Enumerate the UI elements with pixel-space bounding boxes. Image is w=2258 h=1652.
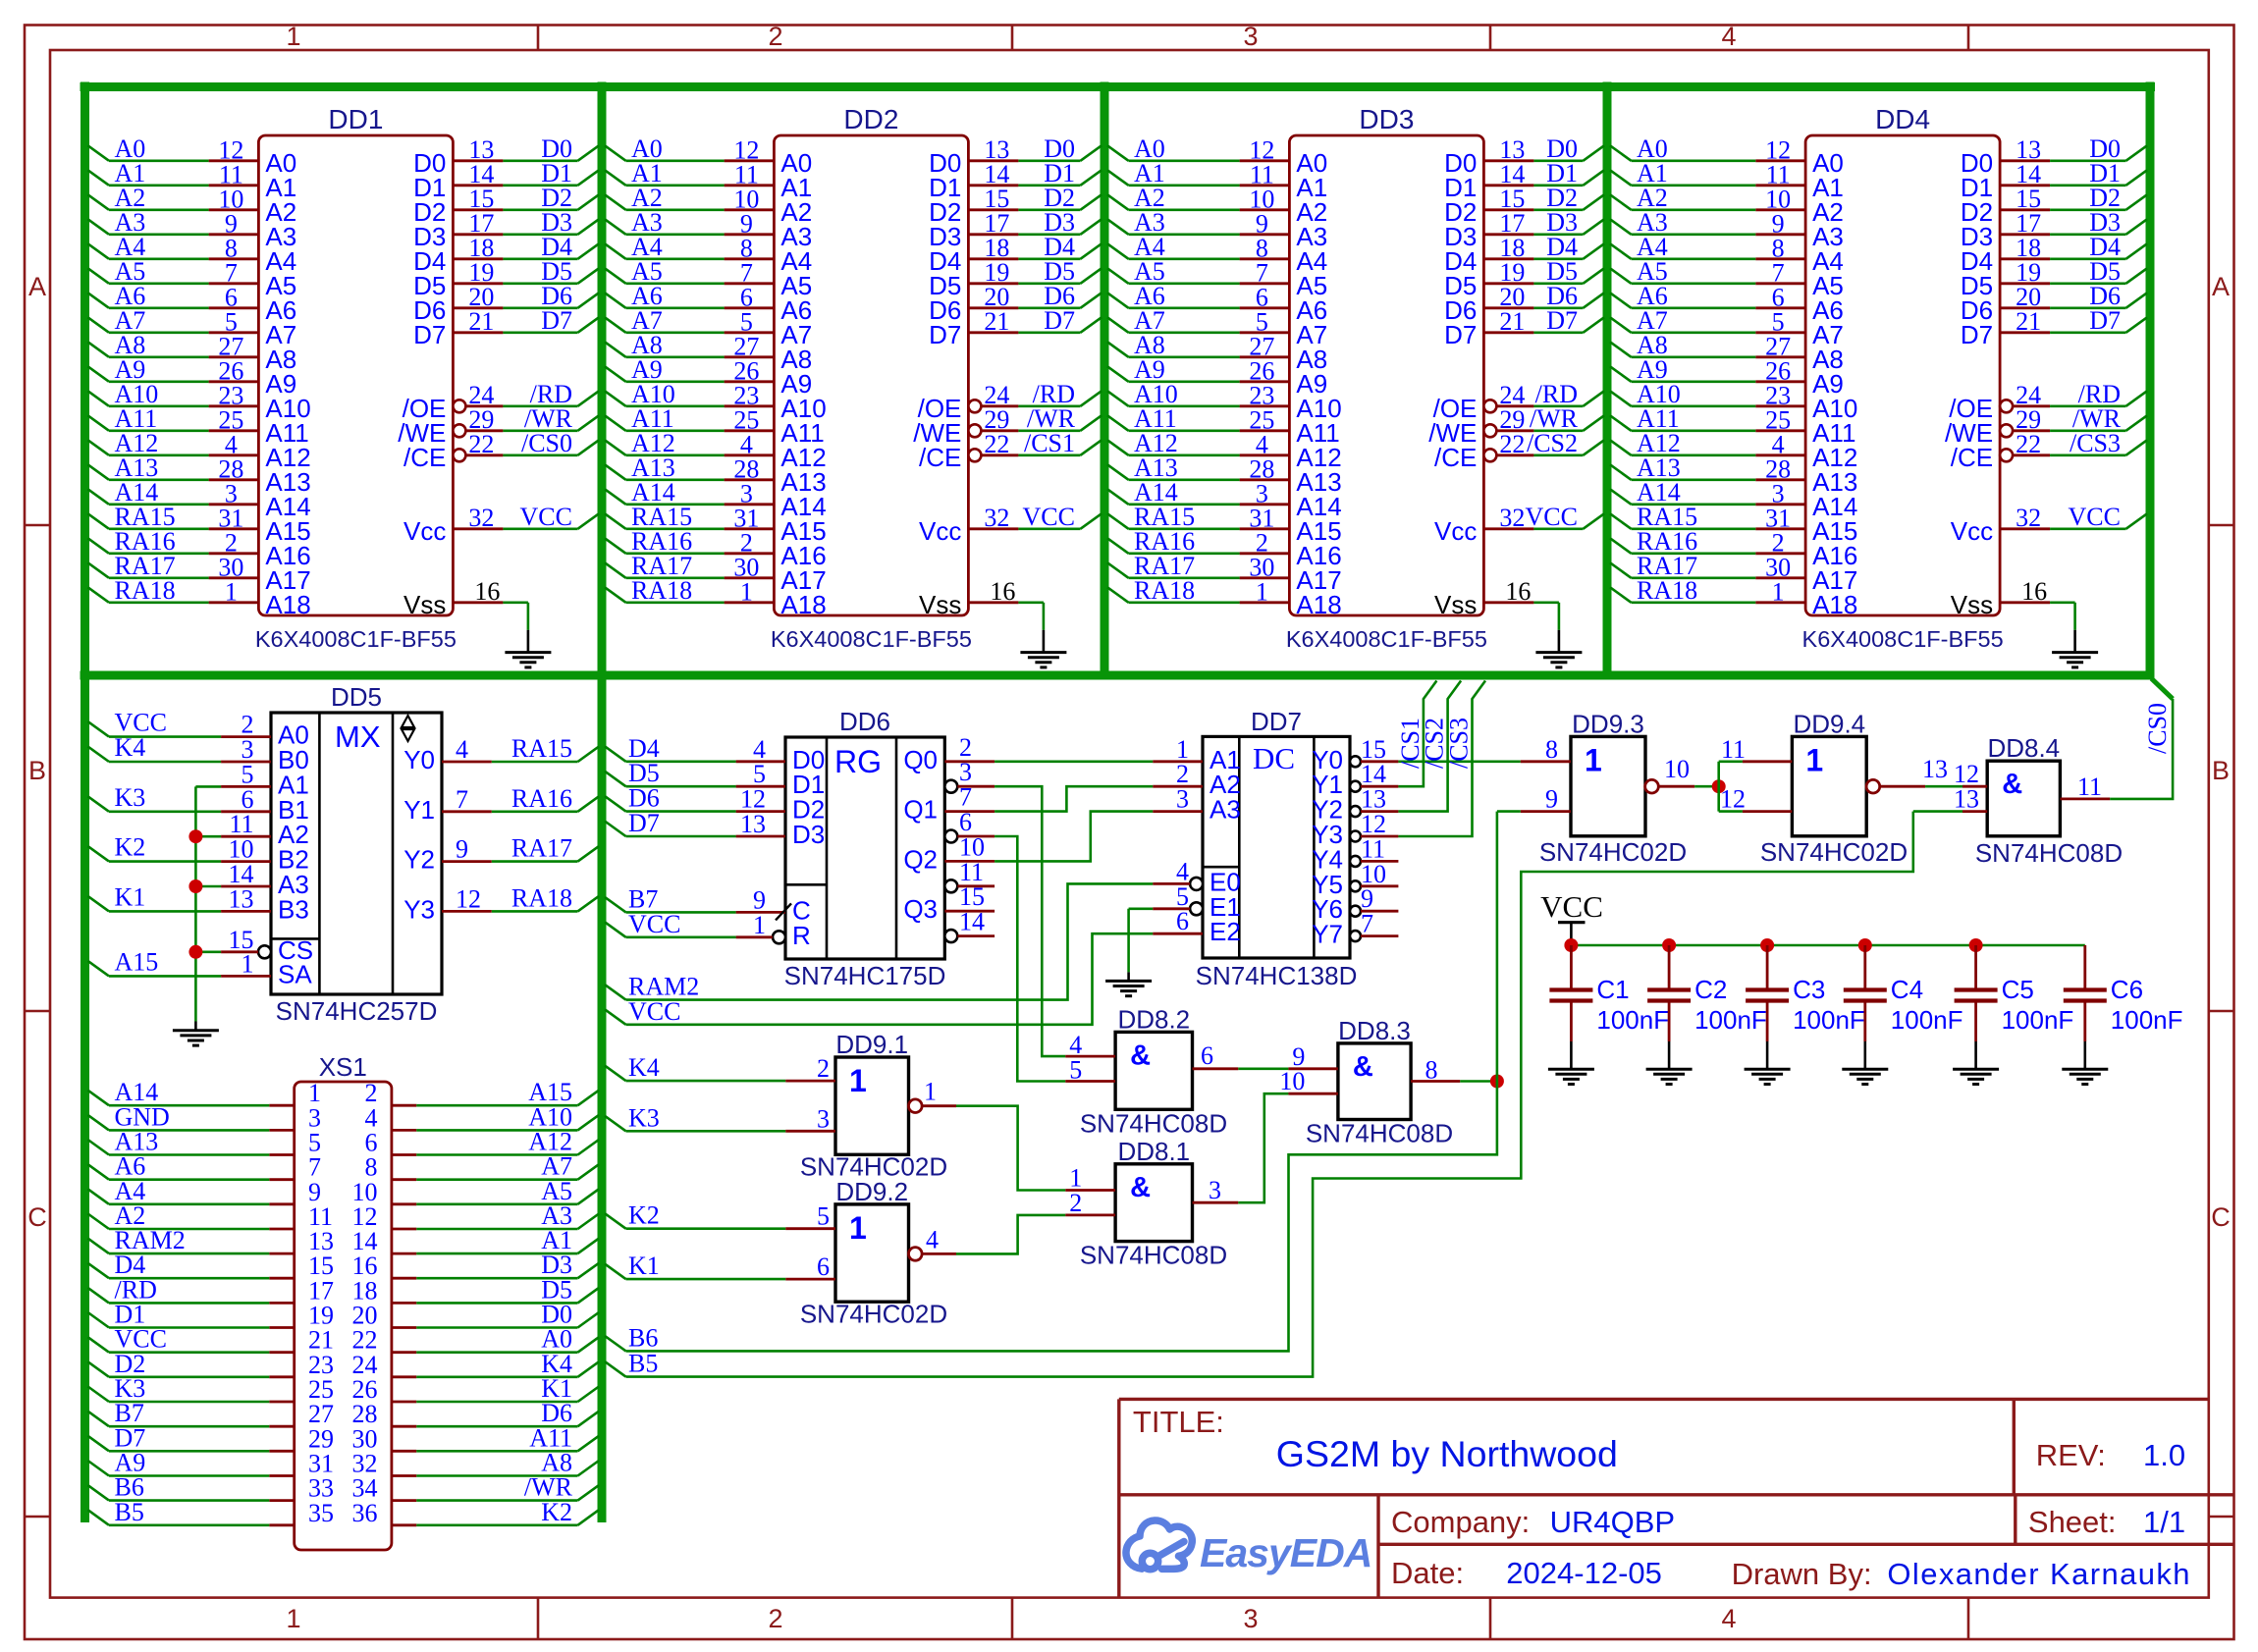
svg-text:12: 12	[456, 884, 481, 913]
svg-text:SN74HC257D: SN74HC257D	[276, 996, 438, 1026]
svg-text:DD4: DD4	[1875, 104, 1930, 134]
svg-text:1: 1	[849, 1063, 867, 1098]
svg-text:C5: C5	[2002, 975, 2034, 1004]
svg-text:Q3: Q3	[903, 894, 938, 924]
svg-text:2: 2	[1069, 1189, 1082, 1217]
svg-text:1: 1	[753, 911, 766, 939]
svg-text:2: 2	[768, 1604, 782, 1633]
svg-text:K3: K3	[628, 1103, 660, 1132]
svg-text:1: 1	[1256, 577, 1268, 606]
svg-text:D7: D7	[929, 320, 961, 349]
svg-text:1: 1	[225, 577, 238, 606]
svg-text:DD8.3: DD8.3	[1338, 1016, 1411, 1045]
svg-text:11: 11	[2077, 773, 2102, 801]
svg-text:DD2: DD2	[843, 104, 898, 134]
svg-text:RA15: RA15	[511, 734, 572, 763]
svg-text:R: R	[792, 921, 811, 950]
svg-text:D7: D7	[1961, 320, 1993, 349]
svg-text:4: 4	[926, 1225, 939, 1253]
svg-text:/CE: /CE	[1434, 443, 1477, 472]
svg-text:VCC: VCC	[1526, 503, 1578, 531]
svg-text:10: 10	[1279, 1067, 1305, 1095]
svg-text:DD9.3: DD9.3	[1572, 709, 1644, 738]
svg-text:K3: K3	[115, 783, 146, 812]
svg-text:A18: A18	[265, 590, 310, 619]
svg-text:K6X4008C1F-BF55: K6X4008C1F-BF55	[255, 626, 457, 652]
svg-text:1: 1	[286, 22, 300, 51]
svg-text:21: 21	[2016, 307, 2041, 336]
svg-text:/CE: /CE	[919, 443, 961, 472]
svg-text:E2: E2	[1210, 917, 1241, 946]
svg-text:8: 8	[1425, 1056, 1438, 1085]
svg-text:A18: A18	[1296, 590, 1341, 619]
svg-text:5: 5	[1069, 1056, 1082, 1085]
svg-text:D7: D7	[541, 306, 572, 335]
svg-text:C4: C4	[1891, 975, 1923, 1004]
svg-text:3: 3	[1243, 22, 1258, 51]
svg-text:A: A	[2212, 272, 2230, 301]
svg-text:4: 4	[1721, 1604, 1736, 1633]
svg-text:6: 6	[1176, 907, 1189, 935]
svg-text:K2: K2	[115, 833, 146, 862]
svg-text:/CE: /CE	[403, 443, 446, 472]
svg-text:2024-12-05: 2024-12-05	[1506, 1556, 1662, 1590]
svg-text:/CS3: /CS3	[1445, 718, 1474, 769]
svg-text:K1: K1	[628, 1252, 660, 1280]
svg-text:4: 4	[1721, 22, 1736, 51]
svg-text:A: A	[28, 272, 46, 301]
svg-text:10: 10	[1664, 755, 1690, 783]
svg-text:13: 13	[1954, 785, 1979, 814]
svg-text:B6: B6	[628, 1323, 658, 1352]
svg-text:&: &	[1130, 1039, 1151, 1071]
svg-text:B5: B5	[628, 1350, 658, 1378]
svg-text:16: 16	[990, 577, 1015, 606]
svg-text:REV:: REV:	[2036, 1438, 2106, 1472]
svg-text:&: &	[1353, 1051, 1373, 1083]
svg-text:Date:: Date:	[1391, 1556, 1464, 1590]
svg-text:C6: C6	[2111, 975, 2143, 1004]
svg-text:C3: C3	[1793, 975, 1825, 1004]
svg-text:1.0: 1.0	[2143, 1438, 2185, 1472]
svg-text:D3: D3	[792, 820, 825, 849]
svg-text:A18: A18	[1812, 590, 1857, 619]
svg-text:Olexander Karnaukh: Olexander Karnaukh	[1887, 1557, 2191, 1591]
svg-text:SN74HC02D: SN74HC02D	[1539, 837, 1687, 867]
svg-text:SN74HC02D: SN74HC02D	[800, 1300, 947, 1329]
svg-text:13: 13	[229, 884, 254, 913]
svg-text:RA17: RA17	[511, 834, 572, 863]
svg-text:Vcc: Vcc	[1434, 516, 1477, 546]
svg-text:100nF: 100nF	[2002, 1005, 2074, 1035]
svg-text:DD9.1: DD9.1	[835, 1030, 908, 1059]
svg-text:MX: MX	[335, 719, 381, 754]
svg-text:RA18: RA18	[1134, 576, 1195, 605]
svg-text:RA18: RA18	[115, 576, 176, 605]
svg-text:SN74HC02D: SN74HC02D	[1760, 837, 1908, 867]
svg-text:13: 13	[740, 810, 766, 838]
svg-text:32: 32	[1499, 504, 1525, 532]
svg-text:K6X4008C1F-BF55: K6X4008C1F-BF55	[771, 626, 972, 652]
svg-text:D7: D7	[2089, 306, 2121, 335]
svg-text:A3: A3	[1210, 795, 1241, 825]
svg-text:21: 21	[468, 307, 494, 336]
svg-text:A18: A18	[780, 590, 826, 619]
svg-text:/CS3: /CS3	[2070, 429, 2121, 457]
svg-text:21: 21	[1499, 307, 1525, 336]
svg-text:TITLE:: TITLE:	[1133, 1405, 1224, 1439]
svg-text:9: 9	[1545, 785, 1558, 814]
svg-text:DD9.4: DD9.4	[1793, 709, 1865, 738]
svg-text:GS2M by Northwood: GS2M by Northwood	[1276, 1433, 1618, 1474]
svg-text:DD1: DD1	[328, 104, 383, 134]
svg-text:Y7: Y7	[1312, 920, 1343, 949]
svg-text:4: 4	[456, 735, 468, 764]
svg-text:Q1: Q1	[903, 795, 938, 825]
svg-text:32: 32	[2016, 504, 2041, 532]
svg-text:SN74HC08D: SN74HC08D	[1975, 838, 2123, 868]
svg-text:22: 22	[468, 430, 494, 458]
svg-text:3: 3	[1209, 1176, 1221, 1204]
svg-text:Vss: Vss	[1434, 590, 1477, 619]
svg-text:12: 12	[1720, 785, 1746, 814]
svg-text:VCC: VCC	[628, 910, 680, 938]
svg-text:6: 6	[1201, 1041, 1213, 1070]
svg-text:K2: K2	[541, 1498, 572, 1526]
svg-text:XS1: XS1	[319, 1052, 367, 1082]
svg-text:Vcc: Vcc	[1951, 516, 1993, 546]
svg-text:1: 1	[740, 577, 753, 606]
svg-text:11: 11	[1721, 735, 1746, 764]
svg-text:/CE: /CE	[1951, 443, 1993, 472]
svg-text:16: 16	[1505, 577, 1531, 606]
svg-text:K2: K2	[628, 1201, 660, 1230]
svg-text:22: 22	[1499, 430, 1525, 458]
svg-text:2: 2	[768, 22, 782, 51]
svg-text:RA16: RA16	[511, 784, 572, 813]
svg-text:1: 1	[286, 1604, 300, 1633]
svg-text:Vcc: Vcc	[919, 516, 961, 546]
svg-text:&: &	[2002, 769, 2022, 800]
svg-text:K6X4008C1F-BF55: K6X4008C1F-BF55	[1802, 626, 2004, 652]
svg-text:7: 7	[456, 785, 468, 814]
svg-text:D7: D7	[1044, 306, 1075, 335]
svg-text:DD5: DD5	[331, 682, 382, 712]
svg-text:Drawn By:: Drawn By:	[1732, 1557, 1872, 1591]
svg-text:VCC: VCC	[520, 503, 572, 531]
svg-text:/CS0: /CS0	[521, 429, 572, 457]
svg-text:14: 14	[959, 908, 985, 936]
svg-text:Vss: Vss	[1951, 590, 1993, 619]
svg-text:Q0: Q0	[903, 745, 938, 774]
svg-text:B5: B5	[115, 1498, 144, 1526]
svg-text:/CS0: /CS0	[2143, 703, 2172, 754]
svg-text:A15: A15	[115, 947, 159, 976]
svg-text:6: 6	[817, 1252, 830, 1281]
svg-text:UR4QBP: UR4QBP	[1550, 1505, 1675, 1539]
svg-text:D7: D7	[628, 809, 660, 837]
svg-text:RA18: RA18	[1637, 576, 1697, 605]
svg-text:B3: B3	[278, 894, 309, 924]
svg-text:Y3: Y3	[403, 894, 435, 924]
svg-text:Vcc: Vcc	[403, 516, 446, 546]
svg-text:100nF: 100nF	[1793, 1005, 1865, 1035]
svg-text:Sheet:: Sheet:	[2028, 1505, 2117, 1539]
svg-text:SN74HC08D: SN74HC08D	[1080, 1109, 1227, 1139]
svg-text:DC: DC	[1253, 741, 1295, 775]
svg-text:RG: RG	[834, 744, 882, 779]
svg-text:RA18: RA18	[631, 576, 692, 605]
svg-text:SN74HC08D: SN74HC08D	[1080, 1241, 1227, 1270]
svg-text:DD8.1: DD8.1	[1117, 1137, 1190, 1166]
svg-text:100nF: 100nF	[1891, 1005, 1963, 1035]
svg-text:C: C	[2211, 1202, 2231, 1232]
svg-text:C1: C1	[1596, 975, 1629, 1004]
svg-text:SN74HC08D: SN74HC08D	[1306, 1119, 1453, 1148]
svg-text:RA18: RA18	[511, 883, 572, 912]
svg-text:100nF: 100nF	[1596, 1005, 1669, 1035]
svg-text:Y0: Y0	[403, 745, 435, 774]
svg-text:B: B	[28, 756, 46, 785]
svg-text:1/1: 1/1	[2143, 1505, 2185, 1539]
svg-text:B: B	[2212, 756, 2230, 785]
svg-text:K4: K4	[628, 1053, 660, 1082]
svg-text:1: 1	[849, 1210, 867, 1246]
svg-text:100nF: 100nF	[2111, 1005, 2183, 1035]
svg-text:VCC: VCC	[1023, 503, 1075, 531]
svg-text:DD8.4: DD8.4	[1987, 733, 2060, 763]
svg-text:D7: D7	[413, 320, 446, 349]
svg-text:C: C	[27, 1202, 47, 1232]
svg-text:5: 5	[817, 1202, 830, 1231]
svg-text:SN74HC175D: SN74HC175D	[784, 961, 946, 990]
svg-text:3: 3	[1176, 785, 1189, 814]
svg-text:22: 22	[2016, 430, 2041, 458]
svg-text:36: 36	[352, 1499, 378, 1527]
svg-text:&: &	[1130, 1172, 1151, 1203]
svg-text:/CS1: /CS1	[1024, 429, 1075, 457]
svg-text:1: 1	[242, 949, 254, 978]
svg-text:21: 21	[984, 307, 1009, 336]
svg-text:C2: C2	[1694, 975, 1727, 1004]
svg-text:8: 8	[1545, 735, 1558, 764]
svg-text:16: 16	[2021, 577, 2047, 606]
svg-text:EasyEDA: EasyEDA	[1200, 1530, 1371, 1575]
svg-text:22: 22	[984, 430, 1009, 458]
svg-text:SN74HC138D: SN74HC138D	[1196, 961, 1358, 990]
svg-text:Q2: Q2	[903, 844, 938, 874]
svg-text:13: 13	[1922, 755, 1948, 783]
svg-text:2: 2	[817, 1054, 830, 1083]
svg-text:32: 32	[468, 504, 494, 532]
svg-text:D7: D7	[1546, 306, 1578, 335]
svg-text:/CS2: /CS2	[1527, 429, 1578, 457]
svg-text:Vss: Vss	[403, 590, 446, 619]
svg-text:9: 9	[456, 835, 468, 864]
svg-text:DD9.2: DD9.2	[835, 1177, 908, 1206]
svg-text:7: 7	[1361, 910, 1373, 938]
svg-text:DD7: DD7	[1251, 707, 1302, 736]
svg-text:VCC: VCC	[1540, 889, 1603, 924]
svg-text:3: 3	[817, 1104, 830, 1133]
svg-text:1: 1	[1772, 577, 1785, 606]
svg-text:1: 1	[1585, 742, 1602, 777]
svg-text:Company:: Company:	[1391, 1505, 1530, 1539]
svg-text:1: 1	[1805, 742, 1823, 777]
svg-text:SA: SA	[278, 959, 312, 988]
svg-text:D7: D7	[1444, 320, 1477, 349]
svg-text:K1: K1	[115, 882, 146, 911]
svg-text:100nF: 100nF	[1694, 1005, 1767, 1035]
svg-text:Y1: Y1	[403, 795, 435, 825]
svg-text:1: 1	[924, 1078, 937, 1106]
svg-text:16: 16	[474, 577, 500, 606]
svg-text:Y2: Y2	[403, 845, 435, 875]
svg-text:DD3: DD3	[1359, 104, 1414, 134]
svg-text:35: 35	[308, 1499, 334, 1527]
svg-text:K6X4008C1F-BF55: K6X4008C1F-BF55	[1286, 626, 1487, 652]
svg-text:DD6: DD6	[839, 707, 890, 736]
svg-text:3: 3	[1243, 1604, 1258, 1633]
svg-text:Vss: Vss	[919, 590, 961, 619]
svg-text:32: 32	[984, 504, 1009, 532]
svg-text:DD8.2: DD8.2	[1117, 1004, 1190, 1034]
svg-text:K4: K4	[115, 733, 146, 762]
svg-text:VCC: VCC	[2069, 503, 2121, 531]
svg-text:VCC: VCC	[628, 997, 680, 1026]
